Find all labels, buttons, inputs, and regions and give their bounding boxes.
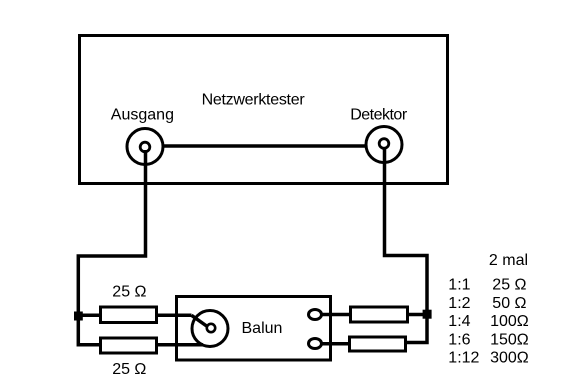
svg-text:25 Ω: 25 Ω [112, 283, 146, 300]
svg-text:1:12: 1:12 [448, 350, 479, 367]
svg-text:25 Ω: 25 Ω [492, 277, 526, 294]
svg-text:Ausgang: Ausgang [111, 107, 174, 124]
svg-text:Detektor: Detektor [350, 106, 408, 123]
svg-text:25 Ω: 25 Ω [112, 361, 146, 378]
svg-text:1:4: 1:4 [448, 313, 470, 330]
svg-text:Netzwerktester: Netzwerktester [202, 92, 306, 109]
svg-text:50 Ω: 50 Ω [492, 295, 526, 312]
svg-text:1:2: 1:2 [448, 295, 470, 312]
svg-text:150Ω: 150Ω [490, 332, 529, 349]
svg-text:300Ω: 300Ω [490, 350, 529, 367]
svg-text:2 mal: 2 mal [489, 252, 528, 269]
svg-text:100Ω: 100Ω [490, 313, 529, 330]
svg-text:Balun: Balun [242, 320, 283, 337]
svg-text:1:1: 1:1 [448, 277, 470, 294]
svg-text:1:6: 1:6 [448, 332, 470, 349]
